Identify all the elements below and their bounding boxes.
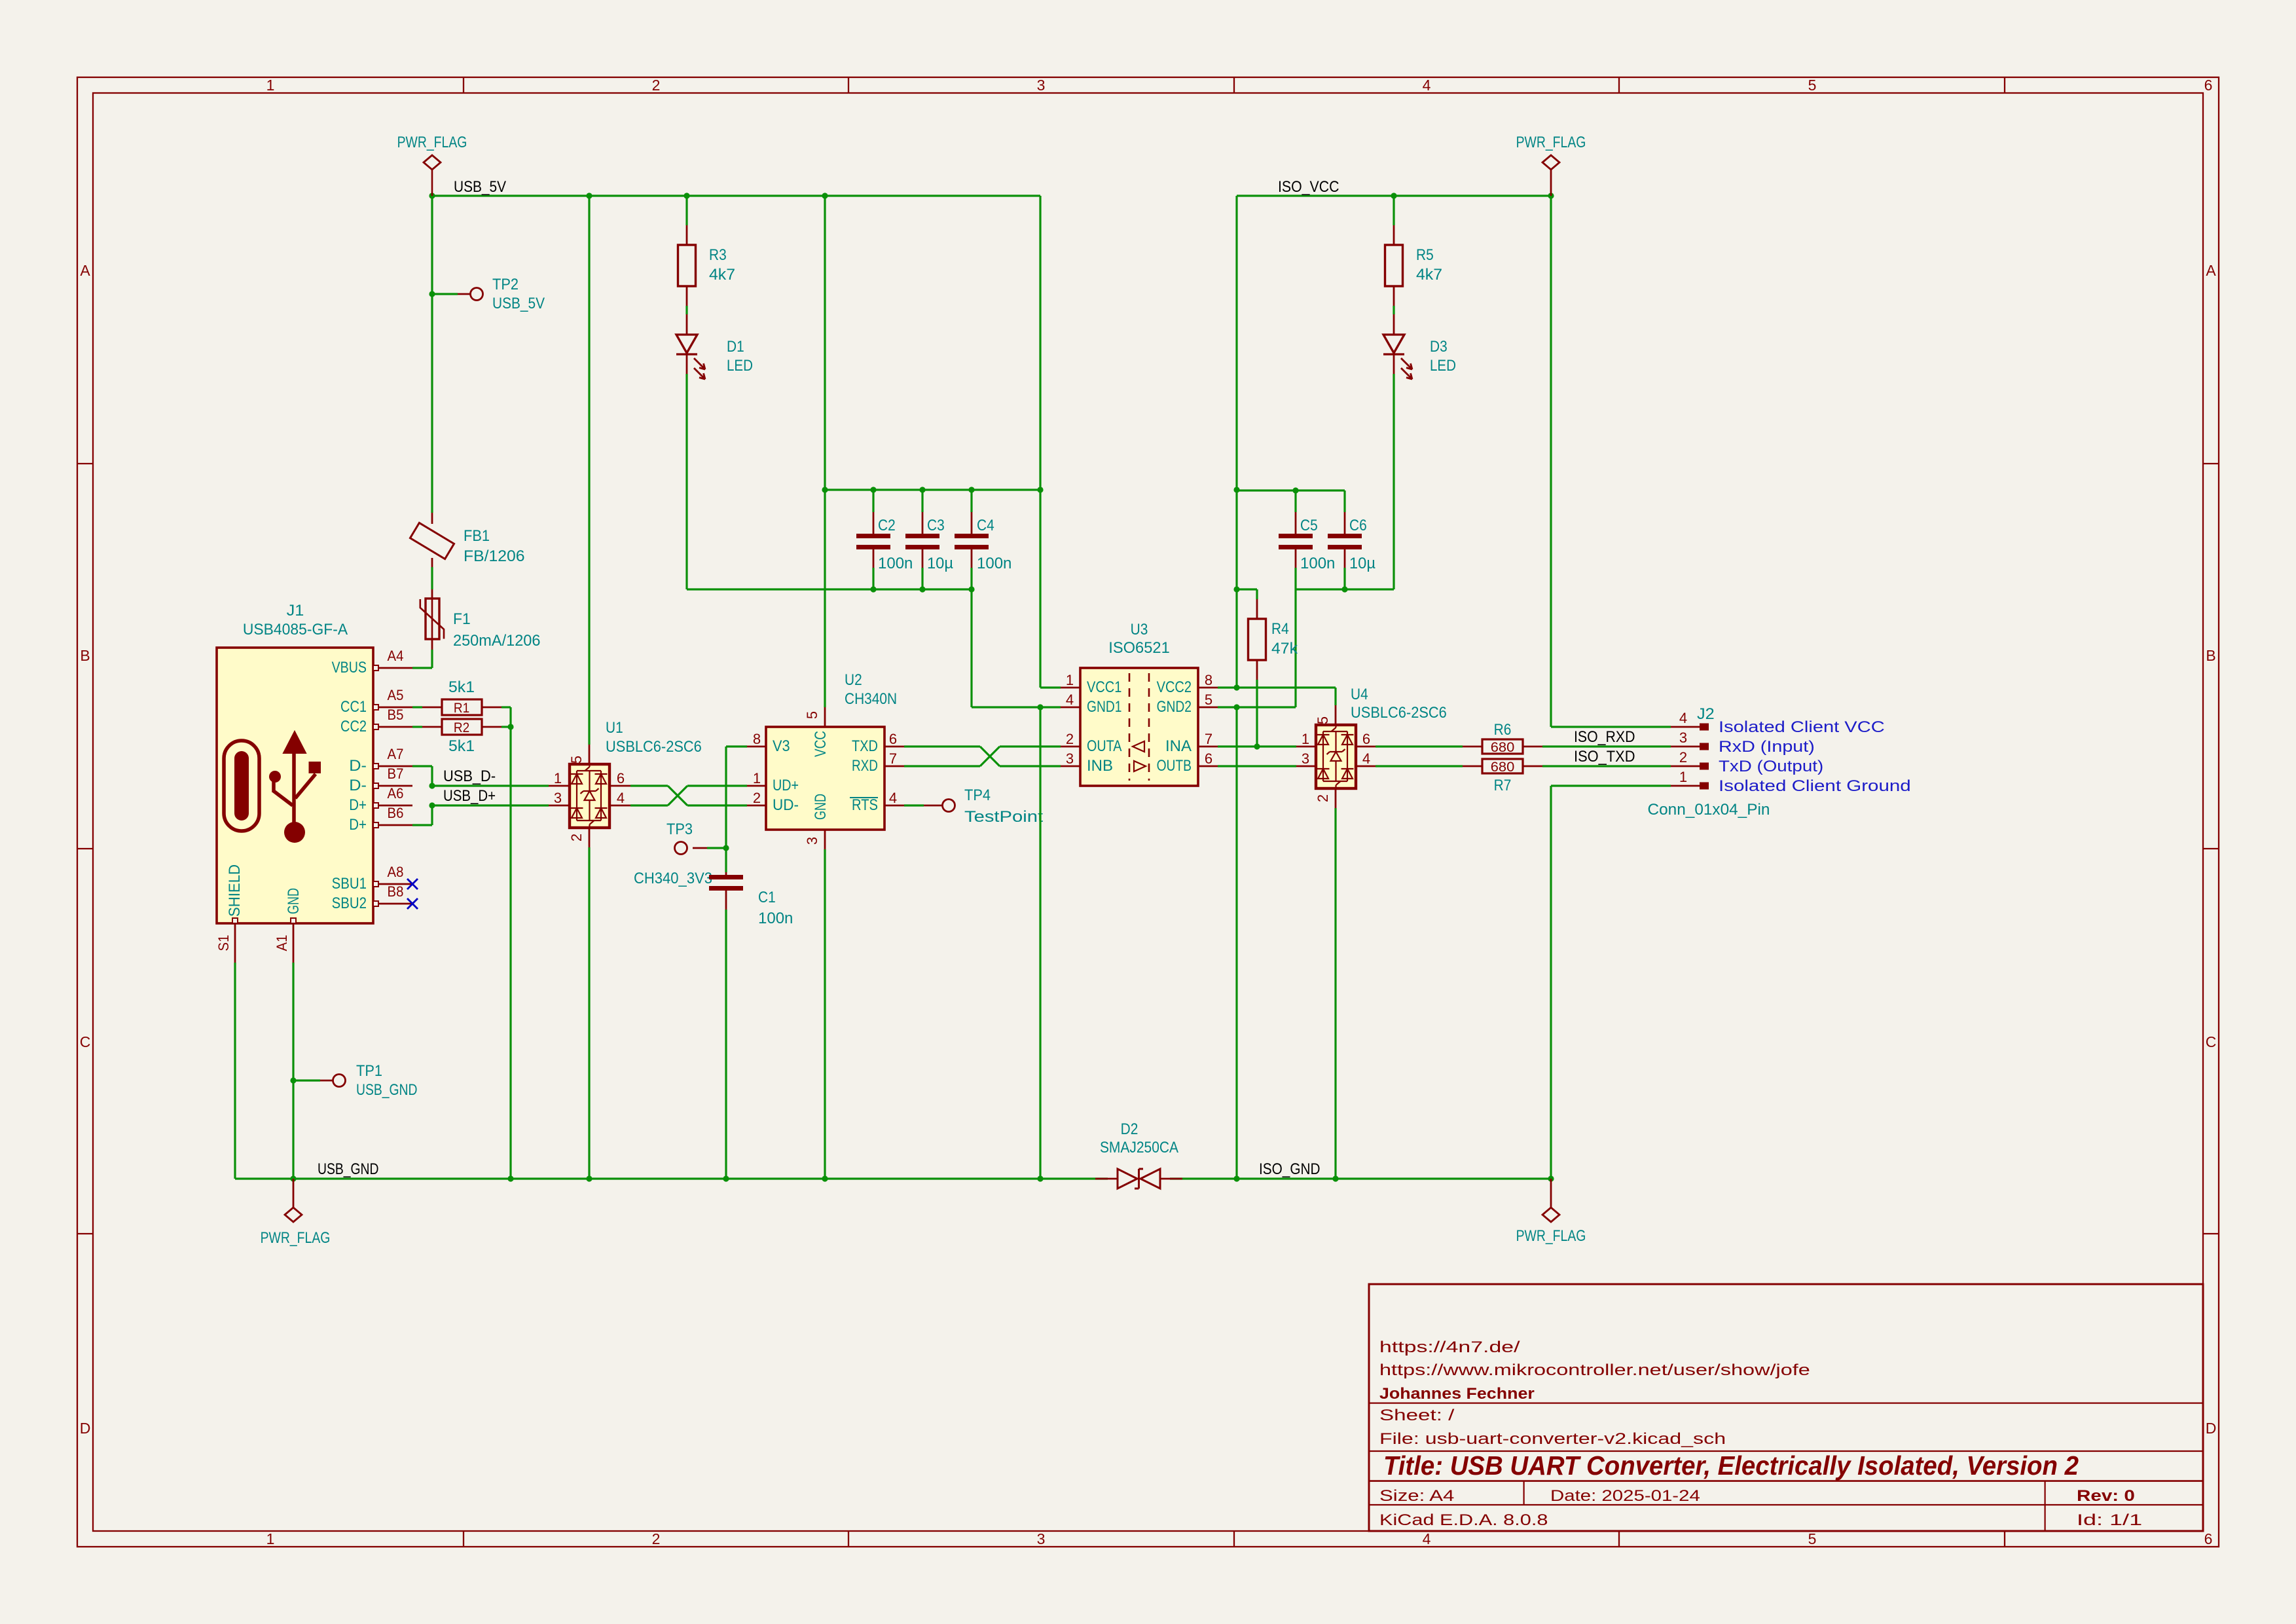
- svg-text:A: A: [2206, 262, 2216, 279]
- J2 pin 3: [1671, 746, 1702, 748]
- svg-text:4: 4: [1423, 77, 1431, 94]
- wire USB_GND rail: [235, 1177, 1108, 1179]
- J1 pin VBUS A4: [373, 667, 412, 669]
- J1 pin D- B7: [373, 785, 412, 787]
- svg-text:Date: 2025-01-24: Date: 2025-01-24: [1550, 1488, 1700, 1505]
- svg-text:2: 2: [1066, 731, 1074, 747]
- svg-text:5: 5: [1808, 77, 1817, 94]
- svg-text:4k7: 4k7: [1416, 267, 1442, 284]
- svg-text:USB_5V: USB_5V: [492, 295, 545, 312]
- J1 pin D+ B6: [373, 824, 412, 826]
- svg-text:USB_D+: USB_D+: [443, 788, 496, 805]
- svg-text:USB_5V: USB_5V: [454, 179, 506, 196]
- wire R1/R2 to GND: [509, 707, 511, 1179]
- svg-text:https://4n7.de/: https://4n7.de/: [1379, 1339, 1520, 1356]
- capacitor C2: [872, 490, 874, 512]
- svg-text:B6: B6: [388, 805, 404, 821]
- J1 shield/gnd wires: [234, 963, 236, 1179]
- wire C5 drop to GND2: [1294, 589, 1296, 707]
- svg-text:Rev: 0: Rev: 0: [2077, 1488, 2135, 1505]
- J1 pin CC2 B5: [373, 726, 412, 728]
- power flag PWR_FLAG bottom-right: [1550, 1179, 1552, 1208]
- svg-text:VBUS: VBUS: [332, 659, 367, 676]
- svg-text:U3: U3: [1131, 621, 1148, 638]
- svg-text:U4: U4: [1351, 686, 1368, 703]
- U3 pin OUTB 6: [1198, 766, 1218, 767]
- wire J2 pin1 ISO_GND: [1551, 784, 1671, 786]
- svg-text:10µ: 10µ: [927, 555, 953, 572]
- wire USB_5V to U1 pin5: [586, 193, 592, 198]
- svg-text:D-: D-: [349, 758, 367, 775]
- svg-text:250mA/1206: 250mA/1206: [453, 633, 541, 650]
- svg-text:100n: 100n: [878, 555, 913, 572]
- wire U4 pin2 to GND: [1334, 808, 1336, 1179]
- GND rail junctions: [290, 1175, 296, 1181]
- wire USB_5V to U2 VCC: [822, 193, 828, 198]
- svg-text:1: 1: [1302, 731, 1309, 747]
- svg-text:5: 5: [568, 756, 585, 764]
- resistor R2 5k1: [412, 726, 422, 728]
- svg-text:47k: 47k: [1271, 640, 1298, 657]
- svg-text:ISO_RXD: ISO_RXD: [1574, 729, 1635, 746]
- svg-text:ISO_GND: ISO_GND: [1259, 1161, 1321, 1178]
- wire USB_5V rail: [432, 194, 1040, 196]
- power flag PWR_FLAG top-left: [431, 170, 433, 196]
- J1 pin D- A7: [373, 766, 412, 767]
- U3 pin GND1 4: [1061, 707, 1080, 709]
- svg-text:S1: S1: [215, 935, 232, 951]
- svg-text:VCC: VCC: [812, 731, 829, 757]
- resistor R1 5k1: [412, 706, 422, 708]
- svg-text:Title: USB UART Converter, Ele: Title: USB UART Converter, Electrically …: [1383, 1450, 2079, 1481]
- LED D1: [685, 306, 687, 314]
- power flag PWR_FLAG top-right: [1548, 193, 1554, 198]
- junction USB_5V/PWR_FLAG: [429, 193, 435, 198]
- svg-text:2: 2: [652, 1530, 661, 1547]
- resistor R5 4k7: [1391, 193, 1396, 198]
- svg-text:6: 6: [1205, 750, 1212, 767]
- svg-text:B: B: [2206, 647, 2215, 664]
- svg-text:3: 3: [1679, 729, 1687, 746]
- svg-text:4: 4: [889, 790, 897, 806]
- svg-text:GND: GND: [812, 794, 829, 820]
- svg-text:GND: GND: [285, 888, 302, 914]
- svg-text:TxD (Output): TxD (Output): [1719, 758, 1823, 775]
- svg-text:TestPoint: TestPoint: [964, 809, 1044, 826]
- wire CH340_3V3 net: [726, 745, 747, 747]
- svg-text:F1: F1: [453, 611, 471, 628]
- svg-text:B5: B5: [388, 707, 404, 723]
- wire cap top rail: [825, 489, 1040, 490]
- svg-text:Size: A4: Size: A4: [1379, 1488, 1454, 1505]
- svg-text:OUTA: OUTA: [1087, 738, 1122, 755]
- svg-text:5: 5: [1315, 716, 1331, 724]
- U3 pin VCC2 8: [1198, 687, 1218, 689]
- svg-text:680: 680: [1491, 759, 1515, 775]
- IC U2 CH340N body: [766, 727, 884, 830]
- svg-text:PWR_FLAG: PWR_FLAG: [261, 1230, 331, 1247]
- svg-text:R2: R2: [454, 720, 469, 735]
- testpoint TP2: [429, 291, 435, 297]
- svg-text:ISO_VCC: ISO_VCC: [1278, 179, 1339, 196]
- wire ISO_GND drop: [1235, 707, 1237, 1179]
- svg-text:CH340_3V3: CH340_3V3: [634, 870, 712, 887]
- svg-text:1: 1: [753, 770, 761, 786]
- J1 pin D+ A6: [373, 805, 412, 807]
- svg-text:Sheet: /: Sheet: /: [1379, 1407, 1455, 1424]
- svg-text:A4: A4: [388, 648, 404, 664]
- svg-text:4: 4: [1423, 1530, 1431, 1547]
- svg-text:USBLC6-2SC6: USBLC6-2SC6: [1351, 705, 1447, 722]
- svg-text:3: 3: [1302, 750, 1309, 767]
- svg-text:D1: D1: [727, 339, 744, 356]
- resistor R7 680: [1376, 765, 1463, 767]
- svg-text:A8: A8: [388, 864, 404, 880]
- svg-text:R1: R1: [454, 700, 469, 716]
- svg-text:RTS: RTS: [852, 797, 878, 814]
- svg-text:A7: A7: [388, 746, 404, 762]
- U3 pin VCC1 1: [1061, 687, 1080, 689]
- svg-text:PWR_FLAG: PWR_FLAG: [397, 134, 467, 151]
- U1 pins: [549, 785, 570, 787]
- svg-text:C1: C1: [758, 889, 776, 906]
- TVS diode D2 SMAJ250CA: [1095, 1178, 1118, 1180]
- svg-text:A6: A6: [388, 785, 404, 802]
- wire TXD/RXD crossover: [904, 745, 980, 747]
- svg-text:CH340N: CH340N: [845, 691, 897, 708]
- wire GND1 junction: [1037, 704, 1043, 710]
- J1 USB logo capsule: [224, 741, 259, 831]
- J1 pin SHIELD S1: [234, 923, 236, 963]
- U2 pin TXD 6: [884, 746, 904, 748]
- wire OUTB net: [1218, 765, 1296, 767]
- svg-text:SHIELD: SHIELD: [227, 864, 244, 917]
- svg-text:8: 8: [753, 731, 761, 747]
- svg-text:2: 2: [1315, 794, 1331, 802]
- svg-text:6: 6: [617, 770, 625, 786]
- wire ISO_VCC cap top rail: [1237, 489, 1345, 491]
- svg-text:7: 7: [889, 750, 897, 767]
- svg-text:UD+: UD+: [773, 777, 799, 794]
- U3 pin GND2 5: [1198, 707, 1218, 709]
- capacitor C3: [921, 490, 923, 512]
- svg-text:Id: 1/1: Id: 1/1: [2077, 1512, 2142, 1529]
- svg-text:3: 3: [804, 837, 820, 845]
- wire ISO_VCC rail: [1237, 194, 1551, 196]
- svg-text:C: C: [2206, 1033, 2217, 1050]
- J2 pin 1: [1671, 785, 1702, 787]
- svg-text:4: 4: [1066, 692, 1074, 708]
- testpoint TP4: [904, 804, 924, 806]
- svg-text:Isolated Client VCC: Isolated Client VCC: [1719, 719, 1885, 736]
- svg-text:ISO6521: ISO6521: [1108, 640, 1170, 657]
- svg-text:GND2: GND2: [1157, 699, 1192, 716]
- svg-text:4: 4: [617, 790, 625, 806]
- svg-text:D3: D3: [1430, 339, 1448, 356]
- svg-text:R4: R4: [1271, 621, 1289, 638]
- wire R4 stub: [1237, 588, 1257, 590]
- svg-text:File: usb-uart-converter-v2.ki: File: usb-uart-converter-v2.kicad_sch: [1379, 1431, 1726, 1448]
- svg-text:10µ: 10µ: [1349, 555, 1376, 572]
- svg-text:GND1: GND1: [1087, 699, 1121, 716]
- U2 pin UD- 2: [747, 805, 766, 807]
- LED D3: [1393, 306, 1394, 314]
- svg-text:3: 3: [1037, 1530, 1046, 1547]
- svg-text:USBLC6-2SC6: USBLC6-2SC6: [606, 739, 702, 756]
- svg-text:D+: D+: [349, 797, 367, 814]
- svg-text:D: D: [2206, 1420, 2217, 1437]
- svg-text:USB4085-GF-A: USB4085-GF-A: [243, 621, 348, 638]
- svg-text:C: C: [80, 1033, 91, 1050]
- svg-text:VCC2: VCC2: [1157, 679, 1192, 696]
- TVS array U1 USBLC6-2SC6: [570, 764, 610, 828]
- U2 pin UD+ 1: [747, 785, 766, 787]
- capacitor C5: [1294, 490, 1296, 512]
- svg-text:SBU2: SBU2: [332, 895, 367, 912]
- svg-text:FB1: FB1: [464, 528, 490, 545]
- svg-text:FB/1206: FB/1206: [464, 548, 525, 565]
- svg-text:6: 6: [2204, 77, 2213, 94]
- svg-text:TP1: TP1: [356, 1063, 382, 1080]
- svg-text:6: 6: [2204, 1530, 2213, 1547]
- svg-text:4: 4: [1679, 710, 1687, 726]
- wire U1-U2 crossover: [630, 784, 668, 786]
- svg-text:USB_GND: USB_GND: [356, 1082, 418, 1099]
- svg-text:TP2: TP2: [492, 276, 519, 293]
- U3 pin OUTA 2: [1061, 746, 1080, 748]
- svg-text:INA: INA: [1165, 738, 1192, 755]
- svg-text:Conn_01x04_Pin: Conn_01x04_Pin: [1648, 802, 1770, 819]
- svg-text:SBU1: SBU1: [332, 876, 367, 893]
- resistor R4 47k: [1256, 599, 1258, 619]
- svg-text:A: A: [80, 262, 90, 279]
- capacitor C4: [970, 490, 972, 512]
- svg-text:USB_D-: USB_D-: [443, 768, 496, 785]
- wire U2 GND to rail: [824, 849, 826, 1179]
- svg-text:Isolated Client Ground: Isolated Client Ground: [1719, 778, 1911, 795]
- svg-text:VCC1: VCC1: [1087, 679, 1121, 696]
- J2 pin 4: [1671, 726, 1702, 728]
- svg-text:R3: R3: [709, 247, 727, 264]
- U4 pins: [1296, 746, 1316, 748]
- svg-text:CC2: CC2: [340, 718, 367, 735]
- svg-text:TXD: TXD: [852, 738, 878, 755]
- svg-text:PWR_FLAG: PWR_FLAG: [1516, 1228, 1586, 1245]
- wire R4 to INA: [1256, 680, 1258, 747]
- svg-text:5k1: 5k1: [448, 679, 475, 696]
- svg-text:ISO_TXD: ISO_TXD: [1574, 748, 1635, 766]
- svg-text:D2: D2: [1121, 1121, 1139, 1138]
- svg-text:4: 4: [1362, 750, 1370, 767]
- title block frame: [1369, 1284, 2203, 1531]
- wire INA net: [1218, 745, 1296, 747]
- svg-text:KiCad E.D.A. 8.0.8: KiCad E.D.A. 8.0.8: [1379, 1512, 1548, 1529]
- svg-text:680: 680: [1491, 739, 1515, 755]
- svg-text:5k1: 5k1: [448, 738, 475, 755]
- svg-text:5: 5: [1808, 1530, 1817, 1547]
- svg-text:B: B: [80, 647, 90, 664]
- wire USB_D- net: [412, 765, 432, 767]
- wire USB_D+ net: [412, 824, 432, 826]
- svg-text:1: 1: [266, 77, 275, 94]
- svg-text:3: 3: [554, 790, 562, 806]
- wire VBUS vertical: [431, 196, 433, 513]
- J1 pin SBU2 B8: [373, 903, 412, 905]
- svg-text:TP4: TP4: [964, 787, 991, 804]
- U3 channel direction arrows: [1133, 741, 1144, 752]
- U3 pin INA 7: [1198, 746, 1218, 748]
- J2 pin 2: [1671, 766, 1702, 767]
- svg-text:C6: C6: [1349, 517, 1367, 534]
- svg-text:C3: C3: [927, 517, 945, 534]
- svg-text:D-: D-: [349, 777, 367, 794]
- wire ISO_VCC right vertical to J2 pin4: [1550, 196, 1552, 727]
- svg-text:5: 5: [804, 711, 820, 719]
- U2 pin V3 8: [747, 746, 766, 748]
- svg-text:C2: C2: [878, 517, 896, 534]
- svg-text:D+: D+: [349, 817, 367, 834]
- testpoint TP1: [290, 1077, 296, 1083]
- svg-text:Johannes Fechner: Johannes Fechner: [1379, 1386, 1535, 1403]
- svg-text:2: 2: [568, 834, 585, 841]
- svg-text:R7: R7: [1494, 777, 1512, 794]
- svg-text:6: 6: [1362, 731, 1370, 747]
- svg-text:J2: J2: [1697, 706, 1715, 723]
- svg-text:A5: A5: [388, 687, 404, 703]
- ferrite bead FB1: [431, 513, 433, 524]
- svg-text:J1: J1: [287, 602, 304, 619]
- svg-text:USB_GND: USB_GND: [318, 1161, 379, 1178]
- svg-text:U2: U2: [845, 672, 862, 689]
- svg-text:TP3: TP3: [666, 821, 693, 838]
- svg-text:2: 2: [652, 77, 661, 94]
- U2 pin GND 3: [824, 830, 826, 849]
- svg-text:U1: U1: [606, 720, 623, 737]
- resistor R6 680: [1376, 745, 1463, 747]
- J1 pin GND A1: [293, 923, 295, 963]
- svg-text:1: 1: [554, 770, 562, 786]
- svg-text:PWR_FLAG: PWR_FLAG: [1516, 134, 1586, 151]
- U2 pin VCC 5: [824, 707, 826, 727]
- svg-text:R5: R5: [1416, 247, 1434, 264]
- svg-text:D: D: [80, 1420, 91, 1437]
- svg-text:LED: LED: [727, 358, 753, 375]
- svg-text:R6: R6: [1494, 722, 1512, 739]
- svg-text:V3: V3: [773, 738, 790, 755]
- svg-text:OUTB: OUTB: [1157, 758, 1192, 775]
- svg-text:100n: 100n: [758, 910, 793, 927]
- svg-text:100n: 100n: [1300, 555, 1335, 572]
- U2 pin RTS 4: [884, 805, 904, 807]
- wire C-gnd to GND1: [970, 589, 972, 707]
- svg-text:2: 2: [753, 790, 761, 806]
- isolator U3 ISO6521 body: [1080, 668, 1198, 786]
- wire ISO_VCC to VCC2: [1218, 686, 1237, 688]
- svg-text:6: 6: [889, 731, 897, 747]
- wire USB_5V to U3 VCC1: [1039, 196, 1041, 688]
- J1 pin SBU1 A8: [373, 883, 412, 885]
- polyfuse F1: [431, 589, 433, 599]
- wire U1 pin2 to GND: [588, 847, 590, 1179]
- wire D1 to GND rail: [685, 374, 687, 589]
- svg-text:4k7: 4k7: [709, 267, 735, 284]
- svg-text:CC1: CC1: [340, 699, 367, 716]
- svg-text:8: 8: [1205, 672, 1212, 688]
- svg-text:1: 1: [1066, 672, 1074, 688]
- power flag PWR_FLAG bottom-left: [293, 1179, 295, 1208]
- wire ISO_GND rail: [1170, 1177, 1551, 1179]
- svg-text:3: 3: [1066, 750, 1074, 767]
- wire D3 to C5/C6 gnd rail: [1393, 374, 1394, 589]
- connector J1 body: [217, 648, 373, 923]
- svg-text:1: 1: [266, 1530, 275, 1547]
- U3 pin INB 3: [1061, 766, 1080, 767]
- resistor R3: [683, 193, 689, 198]
- svg-text:3: 3: [1037, 77, 1046, 94]
- svg-text:2: 2: [1679, 749, 1687, 766]
- no-connect SBU1: [407, 879, 418, 889]
- svg-text:A1: A1: [274, 935, 290, 951]
- svg-text:RxD (Input): RxD (Input): [1719, 739, 1815, 756]
- svg-text:LED: LED: [1430, 358, 1456, 375]
- capacitor C6: [1343, 490, 1345, 512]
- capacitor C1: [725, 848, 727, 872]
- no-connect SBU2: [407, 898, 418, 909]
- svg-text:RXD: RXD: [852, 758, 878, 775]
- testpoint TP3: [723, 845, 729, 851]
- svg-text:B7: B7: [388, 766, 404, 782]
- svg-text:C5: C5: [1300, 517, 1318, 534]
- svg-text:1: 1: [1679, 769, 1687, 785]
- U3 isolation barrier: [1129, 673, 1131, 781]
- J1 USB logo trident: [292, 752, 296, 832]
- svg-text:C4: C4: [977, 517, 994, 534]
- J1 pin CC1 A5: [373, 707, 412, 709]
- svg-text:7: 7: [1205, 731, 1212, 747]
- svg-text:https://www.mikrocontroller.ne: https://www.mikrocontroller.net/user/sho…: [1379, 1362, 1810, 1379]
- U2 pin RXD 7: [884, 766, 904, 767]
- wire ISO_VCC left vertical: [1235, 196, 1237, 688]
- svg-text:B8: B8: [388, 883, 404, 900]
- svg-text:UD-: UD-: [773, 797, 799, 814]
- svg-text:100n: 100n: [977, 555, 1011, 572]
- svg-text:INB: INB: [1087, 758, 1113, 775]
- svg-text:SMAJ250CA: SMAJ250CA: [1100, 1139, 1178, 1156]
- svg-text:5: 5: [1205, 692, 1212, 708]
- TVS array U4 USBLC6-2SC6: [1316, 725, 1356, 788]
